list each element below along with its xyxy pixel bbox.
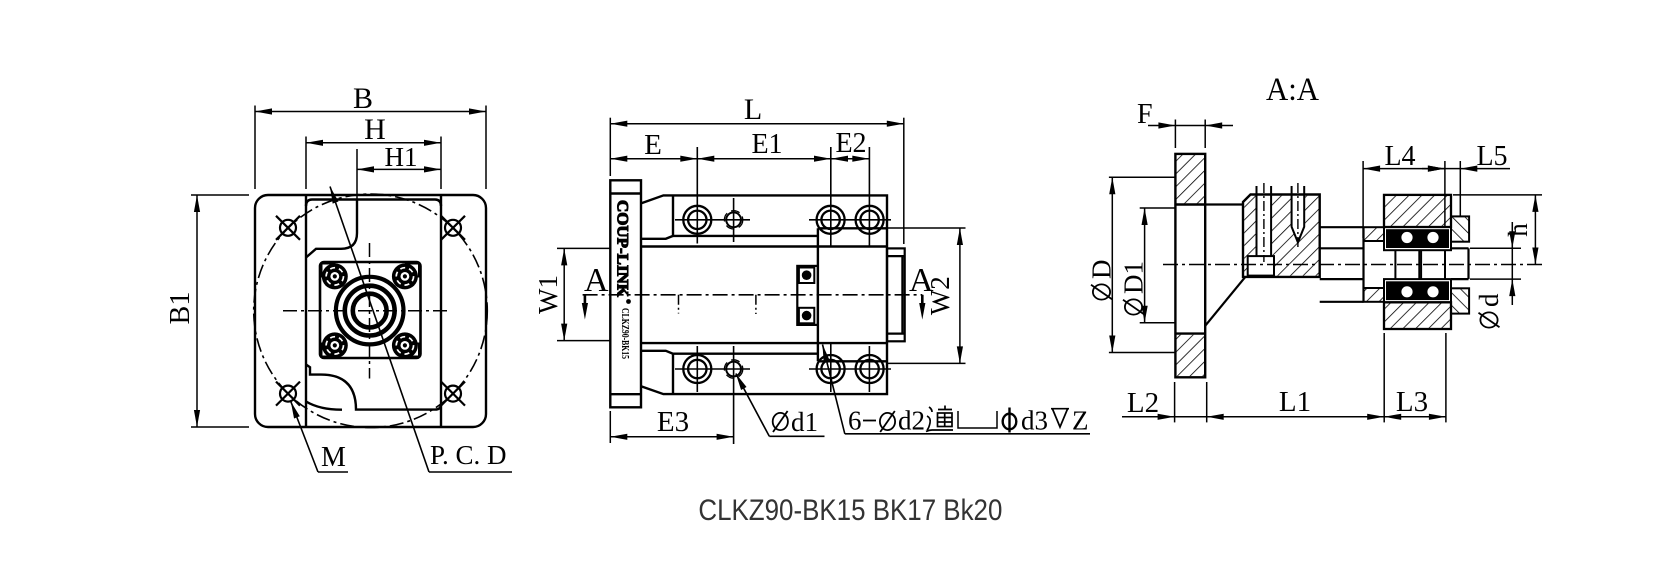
flange hatch bottom [1177, 335, 1205, 377]
hole bottom E [683, 355, 711, 383]
shaft end lines [1451, 248, 1469, 279]
svg-text:L1: L1 [1279, 386, 1311, 418]
hole crosshairs [675, 147, 891, 444]
bearing outer band bottom [1384, 279, 1451, 302]
shaft step sections [1364, 227, 1385, 302]
dimension L2 [1122, 382, 1207, 422]
boss section [1243, 195, 1320, 277]
holes bottom right pair [817, 355, 884, 383]
dimension B [255, 106, 486, 190]
inner profile top edge [306, 200, 441, 207]
center bore circles [336, 277, 404, 345]
svg-text:D1: D1 [1119, 261, 1149, 294]
bearing block top [1384, 195, 1451, 227]
svg-text:d1: d1 [791, 407, 818, 437]
channel centerlines [1263, 183, 1265, 262]
dimension L5 [1422, 161, 1510, 217]
svg-text:B: B [353, 82, 373, 115]
outer square plate [255, 195, 486, 427]
svg-text:6: 6 [848, 406, 862, 436]
boss hatch [1244, 196, 1318, 276]
svg-text:L2: L2 [1127, 387, 1159, 419]
dimension L4 [1363, 161, 1445, 238]
clamp screw channel [1248, 186, 1305, 276]
screw-nut bearing symbol [797, 266, 818, 325]
top pocket [673, 196, 818, 236]
hole top d1 small [724, 211, 742, 229]
lock nut bottom [1451, 288, 1469, 313]
leader d1 [736, 374, 825, 437]
svg-text:E3: E3 [657, 406, 689, 438]
svg-text:d2: d2 [898, 406, 925, 436]
band left edge / H extension [305, 195, 307, 427]
flange vertical logo text [614, 200, 631, 359]
bore line flange to boss [1205, 203, 1243, 205]
bottom pocket [673, 354, 818, 394]
dimension E2 [831, 158, 869, 160]
hole bottom d1 small [724, 360, 742, 378]
svg-text:P. C. D: P. C. D [430, 440, 507, 470]
dimension E1 [697, 158, 831, 160]
bearing balls [1401, 231, 1440, 298]
body top edge [641, 195, 887, 394]
bolt top-right [392, 263, 418, 289]
leader M [291, 402, 348, 473]
top-left notch [306, 200, 357, 258]
svg-text:W2: W2 [925, 276, 955, 315]
corner hole bottom-right [441, 382, 465, 406]
dimension diaD1 [1140, 208, 1176, 323]
svg-text:E2: E2 [835, 128, 866, 159]
right bearing block [818, 228, 887, 361]
dimension dia d [1470, 222, 1521, 305]
dimension L3 [1384, 416, 1446, 418]
dimension E [610, 158, 697, 160]
svg-text:H1: H1 [385, 142, 418, 172]
bearing block bottom [1384, 302, 1451, 329]
bold phi d3 [1003, 408, 1017, 433]
dimension W1 [557, 248, 611, 340]
flange hatch top [1177, 155, 1205, 203]
flange body [610, 180, 641, 407]
bolt bottom-left [322, 332, 348, 358]
svg-text:L4: L4 [1384, 141, 1415, 172]
dimension F [1148, 120, 1233, 149]
bottom-left notch [306, 365, 441, 410]
svg-text:COUP-LINK: COUP-LINK [614, 200, 631, 298]
svg-text:L5: L5 [1476, 141, 1507, 172]
bolt top-left [322, 263, 348, 289]
svg-text:F: F [1137, 99, 1153, 130]
gusset diagonal [1205, 277, 1245, 326]
svg-text:E1: E1 [751, 129, 782, 160]
svg-text:W1: W1 [533, 275, 563, 314]
dimension B1 [191, 195, 249, 427]
svg-text:Z: Z [1072, 406, 1089, 436]
dimension H1 [357, 149, 441, 199]
svg-text:A:A: A:A [1266, 72, 1319, 108]
svg-text:E: E [644, 129, 662, 161]
dimension L [610, 118, 904, 244]
svg-text:CLKZ90-BK15 BK17 Bk20: CLKZ90-BK15 BK17 Bk20 [698, 494, 1002, 527]
leader 6-d2 [823, 345, 1091, 434]
right end cap [887, 248, 905, 341]
svg-text:B1: B1 [165, 292, 196, 325]
dimension h [1453, 195, 1542, 265]
hand-drawn CJK thru char [926, 406, 953, 432]
PCD dash-dot circle [254, 194, 488, 428]
svg-text:L: L [744, 93, 762, 126]
corner hole top-left [276, 216, 300, 240]
mid body shoulders [641, 245, 887, 247]
holes top right pair [817, 206, 884, 234]
section marker A right [921, 295, 924, 304]
corner hole top-right [441, 216, 465, 240]
bolt seat corners [322, 264, 420, 357]
depth symbol [1051, 409, 1069, 427]
hole top E (counterbored) [683, 206, 711, 234]
main centerline A:A [1163, 264, 1545, 266]
corner hole bottom-left [276, 382, 300, 406]
hidden pocket centerlines [678, 295, 680, 314]
horizontal centerline [283, 310, 448, 312]
svg-text:D: D [1087, 260, 1117, 280]
dimension E3 [610, 411, 733, 443]
dimension W2 [888, 228, 966, 363]
housing bore lines [1320, 227, 1364, 302]
flange section [1175, 154, 1205, 377]
main centerline [583, 294, 923, 296]
svg-text:M: M [321, 442, 346, 473]
svg-text:A: A [584, 262, 609, 299]
bolt bottom-right [392, 332, 418, 358]
label dia d1 [773, 411, 788, 432]
dimension H [306, 137, 441, 190]
vertical centerline [369, 243, 371, 379]
inner bearing flange square [320, 262, 421, 358]
dimension diaD [1109, 177, 1176, 352]
inner race lines [1395, 250, 1445, 279]
band right edge [440, 195, 442, 427]
svg-text:CLKZ90-BK15: CLKZ90-BK15 [619, 308, 630, 359]
svg-text:d3: d3 [1021, 406, 1048, 436]
svg-text:H: H [364, 113, 386, 146]
svg-text:h: h [1503, 223, 1533, 237]
lock nut top [1451, 216, 1469, 241]
svg-text:d: d [1474, 293, 1504, 307]
dimension L1 [1207, 333, 1446, 422]
section marker A left [584, 295, 587, 304]
counterbore symbol [958, 411, 997, 428]
bearing outer band top [1384, 227, 1451, 250]
bottom-left closing curve [306, 402, 342, 410]
svg-text:L3: L3 [1396, 386, 1428, 418]
leader P.C.D [330, 187, 512, 473]
